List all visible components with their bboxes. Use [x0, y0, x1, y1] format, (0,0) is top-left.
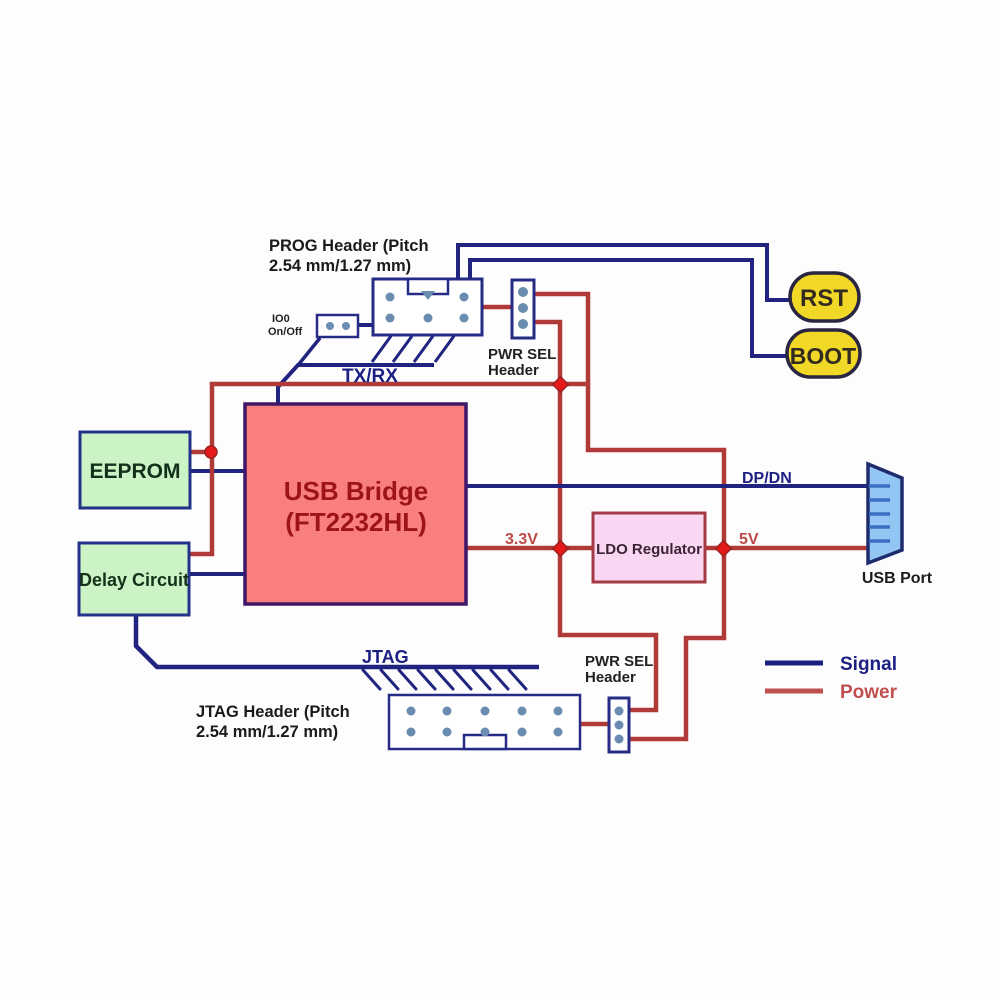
svg-text:2.54 mm/1.27 mm): 2.54 mm/1.27 mm) [196, 723, 338, 741]
header PWR SEL (top) [512, 280, 534, 338]
svg-text:Power: Power [840, 682, 898, 703]
svg-text:3.3V: 3.3V [505, 531, 538, 548]
svg-text:TX/RX: TX/RX [342, 366, 398, 387]
svg-text:BOOT: BOOT [790, 343, 856, 369]
wire TX/RX power line (red) with left leg to Delay Circuit [190, 384, 588, 554]
wire JTAG bus slashes [363, 670, 526, 689]
button RST [790, 273, 859, 321]
wire EEPROM power stub (red) [190, 450, 212, 455]
wire BOOT (blue, PROG header to BOOT button) [470, 260, 788, 356]
junction node TX/RX [553, 377, 569, 393]
block Delay Circuit [79, 543, 189, 615]
wire Delay signal stub (blue) [189, 572, 247, 576]
wire JTAG (blue, Delay Circuit to JTAG bus) [136, 614, 539, 667]
block LDO Regulator [593, 513, 705, 582]
svg-text:JTAG Header (Pitch: JTAG Header (Pitch [196, 703, 350, 721]
svg-text:PROG Header (Pitch: PROG Header (Pitch [269, 237, 429, 255]
wire JTAG header to PWR SEL stub (red) [580, 722, 610, 727]
svg-text:USB Port: USB Port [862, 570, 933, 587]
junction node 3.3V [553, 541, 569, 557]
svg-text:2.54 mm/1.27 mm): 2.54 mm/1.27 mm) [269, 257, 411, 275]
svg-text:DP/DN: DP/DN [742, 470, 792, 487]
svg-text:USB Bridge: USB Bridge [284, 476, 428, 506]
block USB Bridge U1 [245, 404, 466, 604]
header PWR SEL (bottom) [609, 698, 629, 752]
wire 5V (red) [704, 546, 870, 551]
svg-text:LDO Regulator: LDO Regulator [596, 541, 702, 558]
wire PROG bus slashes [372, 336, 454, 362]
svg-text:(FT2232HL): (FT2232HL) [285, 507, 427, 537]
wire IO0 stub [358, 323, 374, 327]
wire 3.3V (red) [464, 546, 594, 551]
button BOOT [787, 330, 860, 377]
wire TX/RX bus (blue) [278, 365, 434, 405]
header JTAG [389, 695, 580, 749]
svg-text:Signal: Signal [840, 654, 897, 675]
wire RST (blue, PROG header to RST button) [458, 245, 790, 300]
svg-text:Header: Header [488, 362, 539, 379]
wire EEPROM signal stub (blue) [190, 469, 247, 473]
svg-text:On/Off: On/Off [268, 326, 303, 338]
svg-text:JTAG: JTAG [362, 647, 409, 667]
svg-text:IO0: IO0 [272, 313, 290, 325]
wire PWR SEL bottom-pin power net (red) [534, 322, 656, 710]
svg-text:Delay Circuit: Delay Circuit [79, 570, 189, 590]
svg-text:5V: 5V [739, 531, 759, 548]
svg-text:PWR SEL: PWR SEL [488, 346, 556, 363]
wire PROG to PWR SEL stub (red) [482, 305, 513, 310]
svg-text:PWR SEL: PWR SEL [585, 653, 653, 670]
junction node EEPROM power [205, 446, 217, 458]
wire DP/DN (blue) [464, 484, 870, 488]
header PROG [373, 279, 482, 335]
legend power line (red) [765, 689, 823, 694]
wire PWR SEL top-pin power net (red) [534, 294, 724, 739]
svg-text:EEPROM: EEPROM [89, 460, 180, 483]
block EEPROM [80, 432, 190, 508]
wire IO0 diagonal [299, 338, 320, 364]
junction node 5V [716, 541, 732, 557]
connector USB Port [868, 464, 902, 563]
svg-text:Header: Header [585, 669, 636, 686]
legend signal line (blue) [765, 661, 823, 666]
header IO0 On/Off [317, 315, 358, 337]
svg-text:RST: RST [800, 285, 848, 312]
